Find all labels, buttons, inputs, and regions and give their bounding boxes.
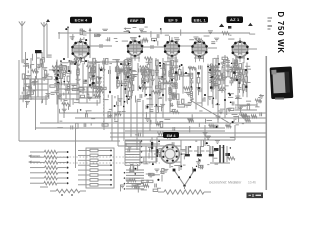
coil box L1 xyxy=(24,79,48,97)
inter-tube coupling links xyxy=(89,23,257,49)
component cluster: left input xyxy=(21,54,55,108)
dial cord run (V) xyxy=(173,169,196,189)
cabinet photo xyxy=(270,66,294,99)
tube envelope U3 xyxy=(164,37,181,61)
dial spring resistor wire xyxy=(158,190,211,194)
svg-text:EBL 1: EBL 1 xyxy=(194,17,207,22)
antenna input symbols xyxy=(19,21,47,31)
frame divider line xyxy=(266,56,268,190)
tube envelope U1 xyxy=(71,38,90,64)
edition marks xyxy=(268,18,273,29)
tube label box AZ 1 xyxy=(227,16,244,23)
tube label box EBL 1 xyxy=(192,17,209,23)
bias resistor row xyxy=(40,187,86,196)
IF transformer T2 xyxy=(140,146,156,162)
svg-text:ECH 4: ECH 4 xyxy=(75,18,88,23)
band switch contact rows (right bank) xyxy=(78,148,114,188)
svg-text:EM 4: EM 4 xyxy=(167,134,177,138)
component cluster: bottom switch extras xyxy=(120,168,168,193)
svg-text:Gezeichnet: Mediator: Gezeichnet: Mediator xyxy=(209,181,242,185)
magic eye label box EM 4 xyxy=(163,132,179,138)
tube envelope U4 xyxy=(191,38,208,62)
output terminals k xyxy=(235,103,257,117)
component cluster: RF/IF field scatter xyxy=(53,58,251,94)
switch wafer ladder xyxy=(124,140,144,190)
svg-text:AZ 1: AZ 1 xyxy=(230,17,240,22)
drawing credit text xyxy=(209,181,256,185)
magic eye tube V6 xyxy=(154,145,186,168)
misc dark marks top row xyxy=(35,19,231,53)
component cluster: under-tube leads xyxy=(57,113,250,133)
terminal arrows xyxy=(28,155,40,164)
svg-text:D 750 WK: D 750 WK xyxy=(276,12,285,54)
switch wafer dark studs xyxy=(151,142,158,157)
component cluster: RF/IF field lower xyxy=(57,90,251,119)
approval stamp xyxy=(247,193,264,199)
band switch contact rows (left bank) xyxy=(30,150,69,185)
coil box L3 xyxy=(79,87,100,103)
component cluster: RF/IF field upper xyxy=(52,57,248,102)
svg-text:EF 9: EF 9 xyxy=(168,17,178,22)
svg-text:10.4b: 10.4b xyxy=(248,181,256,185)
tube label box EBF 2 xyxy=(128,18,146,24)
model title D 750 WK xyxy=(276,12,285,54)
mains transformer T3 xyxy=(210,145,230,163)
tube envelope U5 xyxy=(231,38,248,63)
svg-text:k: k xyxy=(239,112,241,117)
aerial arrow terminal xyxy=(89,28,92,41)
component cluster: psu mid xyxy=(126,132,235,173)
tube label box ECH 4 xyxy=(70,17,92,23)
wire bus network (mains/HT and signal runs) xyxy=(19,24,266,190)
tube envelope U2 xyxy=(127,37,144,61)
coil box L2 xyxy=(59,84,79,99)
tube label box EF 9 xyxy=(164,17,182,23)
component cluster: top grid caps row xyxy=(59,27,255,46)
junction dots xyxy=(56,58,247,101)
component cluster: output right xyxy=(233,95,264,123)
cabinet base marks xyxy=(275,98,284,100)
electrolytic capacitors C40/C41 xyxy=(182,146,216,156)
field vertical wires xyxy=(57,58,247,110)
